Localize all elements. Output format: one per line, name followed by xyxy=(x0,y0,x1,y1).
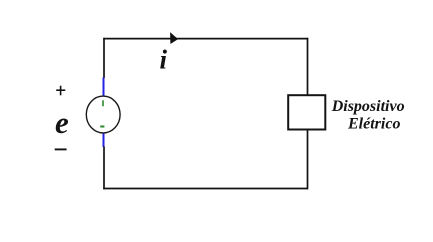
svg-text:e: e xyxy=(55,105,69,140)
wire left vertical lower blue segment xyxy=(103,132,105,147)
load box (Dispositivo Eletrico) xyxy=(288,95,325,129)
svg-text:Elétrico: Elétrico xyxy=(347,116,400,133)
wire left vertical upper blue segment xyxy=(103,78,105,98)
wire top horizontal xyxy=(103,38,308,40)
label - polarity (drawn) xyxy=(55,148,67,150)
svg-text:i: i xyxy=(160,45,168,75)
wire left vertical lower black segment xyxy=(103,147,105,190)
current arrow on top wire xyxy=(171,33,178,43)
wire right vertical lower segment xyxy=(307,129,309,189)
green minus tick inside source xyxy=(100,126,104,128)
label + polarity (drawn) xyxy=(56,86,65,96)
svg-text:Dispositivo: Dispositivo xyxy=(331,98,405,115)
wire left vertical upper black segment xyxy=(103,38,105,78)
wire right vertical upper segment xyxy=(307,38,309,96)
green plus tick inside source xyxy=(102,100,104,106)
wire bottom horizontal xyxy=(103,188,308,190)
voltage source e (circle) xyxy=(86,96,120,133)
